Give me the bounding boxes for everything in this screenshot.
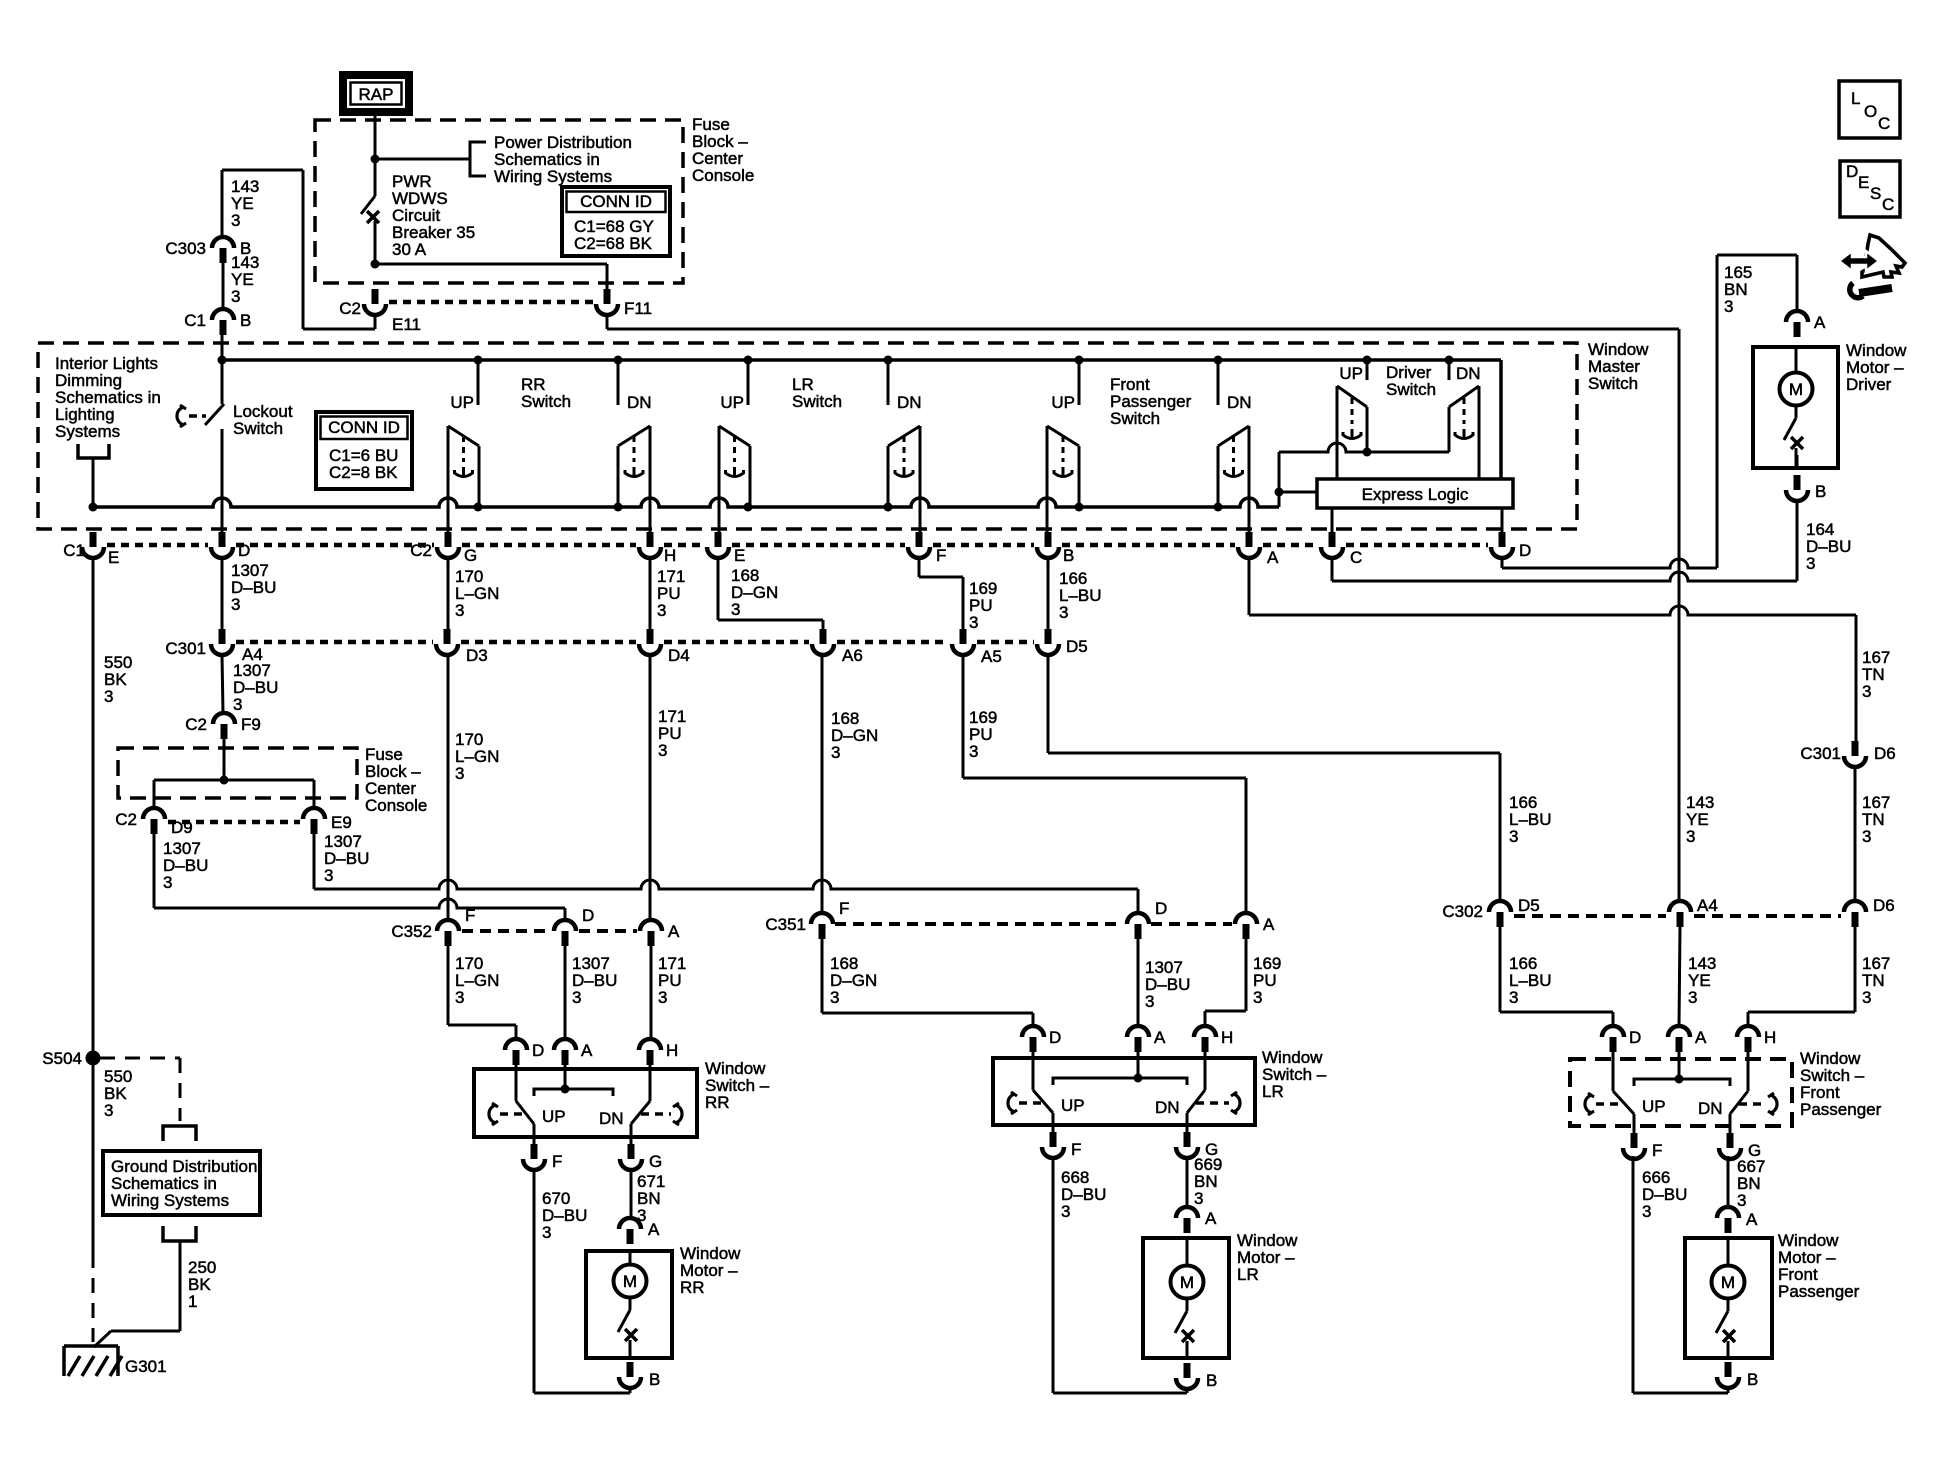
splice S504: [86, 1051, 101, 1066]
connector C301 cavity A6: [820, 629, 827, 644]
wire 171 PU C352-A to RR switch H: [650, 946, 653, 1039]
svg-text:3: 3: [324, 866, 333, 885]
connector cavity D (lockout out): [219, 532, 226, 547]
svg-text:3: 3: [1862, 988, 1871, 1007]
svg-text:O: O: [1864, 102, 1877, 121]
svg-text:1: 1: [188, 1292, 197, 1311]
RR switch DN pentagon: [649, 426, 652, 532]
window switch front passenger: [1602, 1026, 1624, 1037]
svg-text:LR: LR: [1262, 1082, 1284, 1101]
svg-text:DN: DN: [599, 1109, 624, 1128]
wire 168 D-GN master E to C301 A6: [717, 558, 720, 620]
wire 1307 D-BU C352-D to RR switch A: [564, 946, 567, 1039]
svg-text:A: A: [1695, 1028, 1707, 1047]
LR switch DN contact drop: [887, 360, 890, 405]
connector cavity F (LR dn): [916, 532, 923, 547]
ground distribution schematics box: [103, 1151, 260, 1215]
wire 166 L-BU master B to C301 D5: [1047, 558, 1050, 632]
svg-text:C303: C303: [165, 239, 206, 258]
svg-text:E11: E11: [392, 315, 421, 334]
front passenger switch UP contact drop: [1078, 360, 1081, 405]
svg-text:3: 3: [969, 742, 978, 761]
svg-text:3: 3: [1724, 297, 1733, 316]
window motor LR connector B: [1184, 1363, 1191, 1378]
wire 169 PU C351-A to LR switch H: [1245, 939, 1248, 1011]
svg-text:F: F: [1652, 1141, 1662, 1160]
svg-text:H: H: [664, 546, 676, 565]
wire 666 D-BU FP switch F to motor B: [1632, 1156, 1635, 1393]
svg-text:Switch: Switch: [1110, 409, 1160, 428]
connector F11: [604, 289, 611, 304]
connector C301 cavity A4: [219, 629, 226, 644]
svg-text:A: A: [1746, 1210, 1758, 1229]
svg-text:Express Logic: Express Logic: [1362, 485, 1469, 504]
connector C1 pin B: [212, 309, 234, 320]
svg-text:F11: F11: [624, 299, 652, 318]
svg-text:S504: S504: [42, 1049, 82, 1068]
wire 169 PU A5 to C351 A: [962, 655, 965, 778]
connector C1 cavity E: [90, 532, 97, 547]
svg-text:A: A: [1205, 1209, 1217, 1228]
svg-text:G: G: [649, 1152, 662, 1171]
wire 165 BN master D to driver motor A: [1501, 558, 1504, 568]
CONN ID table (master switch): [316, 412, 412, 489]
svg-text:D: D: [238, 541, 250, 560]
svg-text:3: 3: [1688, 988, 1697, 1007]
wire RAP to circuit breaker: [374, 112, 377, 196]
svg-text:Switch: Switch: [792, 392, 842, 411]
svg-text:C: C: [1350, 548, 1362, 567]
svg-text:D5: D5: [1066, 637, 1088, 656]
svg-text:G: G: [464, 546, 477, 565]
window motor FP connector A: [1717, 1207, 1739, 1218]
svg-text:Systems: Systems: [55, 422, 120, 441]
LR switch DN pentagon: [919, 426, 922, 532]
svg-text:E: E: [734, 546, 745, 565]
window motor RR: [586, 1251, 672, 1358]
svg-text:3: 3: [731, 600, 740, 619]
svg-text:A: A: [1814, 313, 1826, 332]
connector row dashed line C302: [1514, 914, 1666, 918]
svg-text:3: 3: [1862, 682, 1871, 701]
connector C302 cavity A4: [1669, 901, 1691, 912]
front passenger switch DN contact drop: [1217, 360, 1220, 405]
wire 143 YE C302-A4 to FP switch A: [1679, 927, 1680, 1026]
svg-text:H: H: [666, 1041, 678, 1060]
RAP power feed box: [343, 75, 409, 112]
svg-text:A: A: [581, 1041, 593, 1060]
svg-text:D6: D6: [1874, 744, 1896, 763]
svg-text:E: E: [1858, 173, 1869, 192]
svg-text:UP: UP: [720, 393, 744, 412]
svg-text:D: D: [1846, 162, 1858, 181]
fuse block internal bus: [154, 779, 314, 782]
connector cavity E9: [303, 808, 325, 819]
wire 669 BN LR switch G to motor A: [1186, 1156, 1189, 1207]
wire 168 D-GN A6 to C351 F: [821, 655, 824, 913]
driver switch DN contact drop: [1448, 360, 1451, 380]
svg-text:F: F: [839, 899, 849, 918]
wire 667 BN FP switch G to motor A: [1727, 1156, 1730, 1207]
svg-text:3: 3: [658, 741, 667, 760]
svg-text:F: F: [552, 1152, 562, 1171]
connector C301 cavity A5: [960, 629, 967, 644]
fuse block center console dashed box (lower): [118, 748, 357, 798]
wire 167 TN master A to C301 D6: [1248, 558, 1251, 615]
svg-text:C1: C1: [184, 311, 206, 330]
svg-text:C2: C2: [115, 810, 137, 829]
svg-text:3: 3: [542, 1223, 551, 1242]
connector C303 pin B: [212, 237, 234, 248]
svg-text:C302: C302: [1442, 902, 1483, 921]
svg-text:CONN ID: CONN ID: [580, 192, 652, 211]
wire 250 BK 1: [179, 1241, 182, 1331]
svg-text:C2=8 BK: C2=8 BK: [329, 463, 398, 482]
svg-text:E9: E9: [331, 813, 352, 832]
svg-text:B: B: [1206, 1371, 1217, 1390]
connector C301 cavity D4: [647, 629, 654, 644]
svg-text:3: 3: [969, 613, 978, 632]
svg-text:C351: C351: [765, 915, 806, 934]
svg-text:Driver: Driver: [1846, 375, 1892, 394]
svg-text:3: 3: [104, 1101, 113, 1120]
svg-text:3: 3: [1145, 992, 1154, 1011]
svg-text:DN: DN: [1456, 364, 1481, 383]
svg-text:C2: C2: [339, 299, 361, 318]
wire below E11: [374, 315, 377, 329]
connector row dashed line C351: [835, 922, 1123, 926]
wire 170 L-GN D3 to C352 F: [447, 655, 450, 920]
wire 168 D-GN C351-F to LR switch D: [821, 939, 824, 1013]
svg-text:C301: C301: [165, 639, 206, 658]
svg-text:A: A: [668, 922, 680, 941]
svg-text:C2: C2: [410, 541, 432, 560]
wire 550 BK 3 to S504: [92, 558, 95, 1058]
svg-text:F9: F9: [241, 715, 261, 734]
main feed bus inside master switch: [222, 358, 1501, 362]
window motor front passenger: [1685, 1238, 1772, 1358]
connector C2 cavity G: [445, 532, 452, 547]
connector cavity E (LR up): [715, 532, 722, 547]
wire 143 YE from F11 to C302-A4: [606, 315, 609, 329]
svg-text:3: 3: [1253, 988, 1262, 1007]
svg-text:3: 3: [231, 287, 240, 306]
connector C2 cavity D9: [143, 808, 165, 819]
svg-text:UP: UP: [1051, 393, 1075, 412]
window motor RR connector B: [627, 1362, 634, 1377]
svg-text:C2: C2: [185, 715, 207, 734]
bus corner down to express logic: [1499, 360, 1503, 479]
svg-text:D: D: [1629, 1028, 1641, 1047]
wire 143 YE C303 to C1: [222, 263, 225, 309]
dashed branch to ground distribution: [100, 1057, 180, 1060]
fuse block center console dashed box (top): [315, 120, 683, 283]
connector C302 cavity D5: [1489, 901, 1511, 912]
svg-text:M: M: [623, 1272, 637, 1291]
svg-text:3: 3: [1059, 603, 1068, 622]
service icon: arrow, door, wrench: [1862, 235, 1905, 277]
RR switch DN contact drop: [617, 360, 620, 405]
svg-text:D4: D4: [668, 646, 690, 665]
connector cavity C (express): [1329, 532, 1336, 547]
wire 1307 D-BU master D to C301 A4: [221, 558, 224, 632]
window motor FP connector B: [1725, 1362, 1732, 1377]
svg-text:3: 3: [657, 601, 666, 620]
svg-text:A: A: [1267, 548, 1279, 567]
express logic box: [1317, 479, 1513, 508]
svg-text:Switch: Switch: [521, 392, 571, 411]
svg-text:D3: D3: [466, 646, 488, 665]
svg-text:S: S: [1870, 184, 1881, 203]
svg-text:B: B: [1747, 1370, 1758, 1389]
svg-text:3: 3: [1642, 1202, 1651, 1221]
svg-text:3: 3: [1509, 988, 1518, 1007]
svg-text:Passenger: Passenger: [1778, 1282, 1860, 1301]
svg-text:DN: DN: [897, 393, 922, 412]
svg-text:C: C: [1882, 195, 1894, 214]
svg-text:D: D: [532, 1041, 544, 1060]
wire 167 TN C302-D6 to FP switch H: [1854, 927, 1857, 1012]
wire 169 PU master F to C301 A5: [918, 558, 921, 577]
wire 170 L-GN C352-F to RR switch D: [447, 946, 450, 1025]
svg-text:DN: DN: [1227, 393, 1252, 412]
svg-text:M: M: [1180, 1273, 1194, 1292]
DESC reference box: [1840, 161, 1900, 217]
lockout switch: [221, 360, 224, 404]
connector row dotted line C301: [236, 640, 433, 645]
LR switch UP contact drop: [747, 360, 750, 405]
connector C2 cavity E11: [372, 289, 379, 304]
driver switch UP contact drop: [1366, 360, 1369, 380]
svg-text:A4: A4: [1697, 896, 1718, 915]
window motor LR connector A: [1176, 1207, 1198, 1218]
wire 1307 D-BU C351-D to LR switch A: [1137, 939, 1140, 1026]
front passenger switch DN pentagon: [1248, 426, 1251, 532]
window master switch dashed box: [38, 343, 1577, 529]
wire 170 L-GN master G to C301 D3: [447, 558, 450, 632]
svg-text:3: 3: [455, 988, 464, 1007]
svg-text:Console: Console: [365, 796, 427, 815]
ground G301: [64, 1344, 118, 1348]
circuit breaker 35 PWR WDWS 30A: [361, 196, 375, 214]
connector cavity H: [647, 532, 654, 547]
LR switch UP pentagon: [718, 426, 721, 532]
connector C352 cavity F: [437, 920, 459, 931]
svg-text:3: 3: [1686, 827, 1695, 846]
svg-text:Wiring Systems: Wiring Systems: [494, 167, 612, 186]
window motor LR: [1143, 1238, 1229, 1358]
wire 166 L-BU D5 to C302 D5: [1047, 655, 1050, 753]
connector C301 cavity D3: [444, 629, 451, 644]
wire 670 D-BU RR switch F to motor B: [533, 1169, 536, 1393]
svg-text:UP: UP: [450, 393, 474, 412]
svg-text:A6: A6: [842, 646, 863, 665]
svg-text:RAP: RAP: [359, 85, 394, 104]
svg-text:C2=68 BK: C2=68 BK: [574, 234, 653, 253]
svg-text:3: 3: [455, 601, 464, 620]
driver switch DN pentagon: [1478, 386, 1481, 479]
svg-text:D: D: [1155, 899, 1167, 918]
svg-text:M: M: [1721, 1273, 1735, 1292]
window motor driver connector A: [1786, 311, 1808, 322]
connector cavity B (FP up): [1045, 532, 1052, 547]
connector body dotted line C2: [389, 300, 593, 305]
svg-text:Wiring Systems: Wiring Systems: [111, 1191, 229, 1210]
svg-text:3: 3: [455, 764, 464, 783]
svg-text:A: A: [1154, 1028, 1166, 1047]
wire 550 BK below S504 (dashed continuation): [92, 1058, 95, 1253]
window switch LR: [1022, 1026, 1044, 1037]
wire 668 D-BU LR switch F to motor B: [1052, 1156, 1055, 1393]
connector cavity A (FP dn): [1246, 532, 1253, 547]
connector C351 cavity F: [811, 913, 833, 924]
svg-text:H: H: [1764, 1028, 1776, 1047]
CONN ID table (fuse block): [562, 187, 670, 256]
svg-text:3: 3: [1194, 1189, 1203, 1208]
svg-text:A5: A5: [981, 647, 1002, 666]
svg-text:G301: G301: [125, 1357, 167, 1376]
driver contacts link wire: [1279, 443, 1449, 452]
svg-text:3: 3: [830, 988, 839, 1007]
LOC reference box: [1839, 81, 1900, 138]
wire 1307 D-BU to fuse block F9: [222, 655, 223, 713]
svg-text:UP: UP: [542, 1107, 566, 1126]
svg-text:DN: DN: [1155, 1098, 1180, 1117]
svg-text:3: 3: [658, 988, 667, 1007]
svg-text:Switch: Switch: [1588, 374, 1638, 393]
svg-text:C301: C301: [1800, 744, 1841, 763]
wire 171 PU master H to C301 D4: [649, 558, 652, 632]
wire 143 YE from C2-E11 to C303: [222, 169, 303, 172]
svg-text:L: L: [1851, 89, 1860, 108]
RR switch UP contact drop: [477, 360, 480, 405]
wire 166 L-BU C302-D5 to FP switch D: [1499, 927, 1502, 1012]
wire 167 TN C301-D6 to C302 D6: [1854, 767, 1857, 901]
svg-text:3: 3: [1806, 554, 1815, 573]
common return bus inside master switch: [93, 498, 1279, 507]
driver switch UP pentagon: [1336, 386, 1339, 479]
svg-text:30 A: 30 A: [392, 240, 427, 259]
svg-text:3: 3: [1862, 827, 1871, 846]
svg-text:A: A: [648, 1220, 660, 1239]
connector C352 cavity A: [640, 920, 662, 931]
svg-text:UP: UP: [1061, 1096, 1085, 1115]
svg-text:3: 3: [233, 695, 242, 714]
svg-text:Passenger: Passenger: [1800, 1100, 1882, 1119]
wire C1-B to bus: [221, 335, 224, 360]
svg-text:F: F: [1071, 1140, 1081, 1159]
connector body dotted line (D9-E9): [168, 820, 300, 825]
svg-text:3: 3: [231, 211, 240, 230]
connector row dotted line (master C1/C2): [107, 543, 208, 548]
svg-text:B: B: [1815, 482, 1826, 501]
RR switch UP pentagon: [447, 426, 450, 532]
wire 671 BN RR switch G to motor A: [630, 1169, 633, 1218]
svg-text:M: M: [1789, 380, 1803, 399]
window motor driver connector B: [1794, 475, 1801, 490]
bracket interior lights dimming: [78, 444, 109, 458]
front passenger switch UP pentagon: [1046, 426, 1049, 532]
node: tap to power distribution: [371, 155, 380, 164]
connector C302 cavity D6: [1844, 901, 1866, 912]
svg-text:D: D: [582, 906, 594, 925]
svg-text:D5: D5: [1518, 896, 1540, 915]
connector C351 cavity D: [1127, 913, 1149, 924]
svg-text:B: B: [1063, 546, 1074, 565]
svg-text:CONN ID: CONN ID: [328, 418, 400, 437]
connector C301 cavity D5: [1045, 629, 1052, 644]
svg-text:LR: LR: [1237, 1265, 1259, 1284]
connector C351 cavity A: [1235, 913, 1257, 924]
window motor RR connector A: [619, 1218, 641, 1229]
svg-text:C: C: [1878, 114, 1890, 133]
svg-text:D: D: [1519, 541, 1531, 560]
wire 171 PU D4 to C352 A: [649, 655, 652, 920]
svg-text:UP: UP: [1339, 364, 1363, 383]
svg-text:3: 3: [572, 988, 581, 1007]
wire 1307 D-BU from E9 to C351 D: [313, 834, 316, 889]
svg-text:Console: Console: [692, 166, 754, 185]
svg-text:3: 3: [831, 743, 840, 762]
svg-text:RR: RR: [705, 1093, 730, 1112]
svg-text:UP: UP: [1642, 1097, 1666, 1116]
svg-text:D: D: [1049, 1028, 1061, 1047]
svg-text:DN: DN: [627, 393, 652, 412]
wire 1307 D-BU from D9 to C352 D: [153, 834, 156, 908]
svg-text:RR: RR: [680, 1278, 705, 1297]
svg-text:C352: C352: [391, 922, 432, 941]
svg-text:B: B: [649, 1370, 660, 1389]
svg-text:3: 3: [104, 687, 113, 706]
bracket to power distribution schematics: [470, 142, 486, 176]
svg-text:B: B: [240, 311, 251, 330]
svg-text:D6: D6: [1873, 896, 1895, 915]
svg-text:3: 3: [163, 873, 172, 892]
svg-text:H: H: [1221, 1028, 1233, 1047]
connector row dashed line C352: [462, 929, 551, 933]
connector C301 cavity D6: [1852, 741, 1859, 756]
wire breaker to fuse F11: [371, 260, 380, 269]
svg-text:A: A: [1263, 915, 1275, 934]
connector C352 cavity D: [554, 920, 576, 931]
svg-text:Switch: Switch: [233, 419, 283, 438]
connector cavity D (express): [1499, 532, 1506, 547]
svg-text:C1: C1: [63, 541, 85, 560]
connector C2 cavity F9: [213, 713, 235, 724]
express logic output C: [1331, 508, 1334, 532]
svg-text:F: F: [465, 906, 475, 925]
svg-text:3: 3: [1061, 1202, 1070, 1221]
svg-text:3: 3: [1737, 1191, 1746, 1210]
wire 164 D-BU master C to driver motor B: [1331, 558, 1334, 581]
svg-text:DN: DN: [1698, 1099, 1723, 1118]
svg-text:Switch: Switch: [1386, 380, 1436, 399]
svg-text:3: 3: [231, 595, 240, 614]
express logic output D: [1501, 508, 1504, 532]
svg-text:E: E: [108, 548, 119, 567]
svg-text:3: 3: [1509, 827, 1518, 846]
window switch RR: [505, 1039, 527, 1050]
window motor driver: [1753, 347, 1838, 468]
svg-text:F: F: [936, 546, 946, 565]
